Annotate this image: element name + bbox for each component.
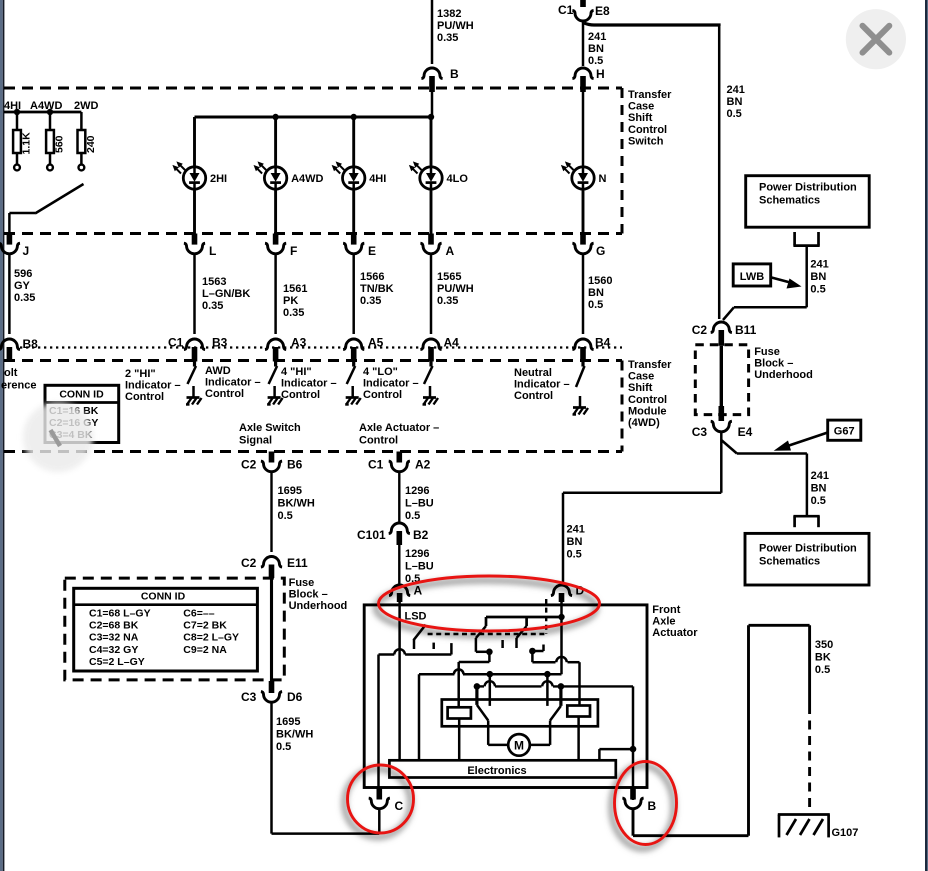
module box right border xyxy=(621,361,624,452)
Fuse Block Underhood dashed box (right) xyxy=(695,345,748,415)
svg-text:L–BU: L–BU xyxy=(405,561,434,573)
svg-text:560: 560 xyxy=(54,135,66,153)
svg-text:olt: olt xyxy=(4,367,18,379)
connector C3 E4 (fuse block boundary) xyxy=(719,406,725,421)
connector B4 (module boundary) xyxy=(572,339,593,350)
off-page connector bracket below box xyxy=(793,232,796,246)
svg-text:TN/BK: TN/BK xyxy=(360,283,394,295)
wire through fuse block xyxy=(720,346,723,406)
svg-text:0.35: 0.35 xyxy=(14,292,35,304)
svg-text:B3: B3 xyxy=(212,336,228,350)
svg-text:Control: Control xyxy=(628,124,667,136)
2 HI indicator control output switch xyxy=(193,362,196,367)
switch 2 contact xyxy=(501,640,504,648)
svg-text:Axle Switch: Axle Switch xyxy=(239,422,301,434)
junction node bus/B wire xyxy=(428,114,434,120)
svg-text:C101: C101 xyxy=(357,528,386,542)
svg-text:F: F xyxy=(290,244,297,258)
wire E11 down through fuse block xyxy=(270,578,273,681)
svg-text:B6: B6 xyxy=(287,458,303,472)
watermark mark xyxy=(51,430,61,446)
Electronics box xyxy=(389,760,615,777)
svg-text:Case: Case xyxy=(628,371,654,383)
connector D (actuator boundary) xyxy=(551,585,572,596)
wire connector A down into Electronics xyxy=(398,602,401,760)
dashed wire segment to G107 xyxy=(808,705,811,813)
svg-text:B: B xyxy=(648,799,657,813)
connector A5 (module boundary) xyxy=(343,339,364,350)
junction node xyxy=(487,671,494,678)
connector G (switch boundary) xyxy=(580,234,586,245)
svg-text:Fuse: Fuse xyxy=(754,346,780,358)
switch 1 contact xyxy=(432,643,435,649)
wire 1382 PU/WH from top to connector B xyxy=(431,0,434,64)
junction node xyxy=(630,746,637,753)
svg-text:Power Distribution: Power Distribution xyxy=(759,543,857,555)
svg-text:596: 596 xyxy=(14,268,32,280)
svg-text:1563: 1563 xyxy=(202,276,226,288)
svg-text:Axle Actuator –: Axle Actuator – xyxy=(359,422,439,434)
connector C2 E11 (fuse block boundary) xyxy=(261,557,282,568)
svg-text:0.5: 0.5 xyxy=(815,664,830,676)
svg-text:4HI: 4HI xyxy=(4,100,21,112)
svg-text:Neutral: Neutral xyxy=(514,367,552,379)
relay coil right xyxy=(567,706,590,717)
resistor 1.1K xyxy=(16,112,19,130)
connector B (actuator boundary) xyxy=(630,788,636,800)
svg-text:C2: C2 xyxy=(692,323,708,337)
svg-text:LWB: LWB xyxy=(740,271,764,283)
Power Distribution Schematics box (top) xyxy=(746,176,870,228)
switch 2 output wire xyxy=(475,649,478,652)
red highlight circle around connector C xyxy=(348,765,414,833)
svg-text:240: 240 xyxy=(85,135,97,153)
svg-text:0.5: 0.5 xyxy=(567,549,582,561)
svg-text:C6=––: C6=–– xyxy=(183,608,214,620)
svg-text:BK: BK xyxy=(815,652,831,664)
svg-text:PK: PK xyxy=(283,295,298,307)
wire bus down to LED 2HI xyxy=(193,117,196,167)
svg-text:Control: Control xyxy=(281,389,320,401)
svg-text:Transfer: Transfer xyxy=(628,359,672,371)
module connector face dotted line xyxy=(20,346,622,348)
connector A4 (module boundary) xyxy=(420,339,441,350)
off-page connector bracket above bottom box xyxy=(793,515,819,518)
wire LED 4HI to connector xyxy=(352,189,355,234)
wire D6 down and right to actuator connector C xyxy=(270,703,273,834)
svg-text:A5: A5 xyxy=(368,336,384,350)
svg-text:B2: B2 xyxy=(413,528,429,542)
switch 3 contact xyxy=(542,645,545,652)
connector C3 D6 (fuse block boundary) xyxy=(269,681,275,693)
coil bottom leads to Electronics xyxy=(458,719,461,761)
4 LO indicator control output switch xyxy=(429,362,432,367)
branch wire E8 to right column (241 BN) xyxy=(584,23,719,26)
relay blade left xyxy=(477,705,488,721)
svg-text:C3=32 NA: C3=32 NA xyxy=(89,632,139,644)
svg-text:1560: 1560 xyxy=(588,275,612,287)
svg-text:Indicator –: Indicator – xyxy=(363,378,419,390)
svg-text:C9=2 NA: C9=2 NA xyxy=(183,644,227,656)
motor wires xyxy=(487,721,490,745)
resistor 240 xyxy=(80,112,83,130)
svg-text:Schematics: Schematics xyxy=(759,556,820,568)
svg-text:Control: Control xyxy=(125,391,164,403)
junction node D / switch common xyxy=(558,614,564,620)
red highlight ellipse around A and D connectors xyxy=(379,576,600,631)
feedback line L1 (hops over coil wire) xyxy=(419,673,454,676)
svg-text:C1: C1 xyxy=(368,458,384,472)
svg-text:2 "HI": 2 "HI" xyxy=(125,368,156,380)
svg-text:L: L xyxy=(209,244,216,258)
connector H xyxy=(572,68,593,79)
Power Distribution Schematics box (bottom) xyxy=(745,533,869,585)
indicator LED 4LO xyxy=(409,161,442,189)
svg-text:C1: C1 xyxy=(168,336,184,350)
relay fixed contact wires xyxy=(489,674,492,706)
svg-text:Control: Control xyxy=(514,390,553,402)
svg-text:H: H xyxy=(596,67,605,81)
svg-text:Block –: Block – xyxy=(754,358,793,370)
svg-text:1695: 1695 xyxy=(278,485,302,497)
svg-text:1.1K: 1.1K xyxy=(21,132,33,155)
Transfer Case Shift Control Switch dashed box : top border xyxy=(4,87,622,90)
Front Axle Actuator box xyxy=(364,605,647,788)
wire bus down to LED A4WD xyxy=(274,117,277,167)
connector F (switch boundary) xyxy=(273,234,279,245)
connector A3 (module boundary) xyxy=(265,339,286,350)
svg-text:M: M xyxy=(514,738,524,752)
svg-text:A4: A4 xyxy=(444,336,460,350)
svg-text:0.5: 0.5 xyxy=(810,284,825,296)
junction node bus/4HI xyxy=(351,114,357,120)
svg-text:4LO: 4LO xyxy=(447,173,469,185)
red highlight circle (connector C) shadow xyxy=(345,769,411,837)
svg-text:0.35: 0.35 xyxy=(283,307,304,319)
connector A (actuator boundary) xyxy=(389,585,410,596)
switch blade 2 xyxy=(476,626,486,638)
svg-text:C8=2 L–GY: C8=2 L–GY xyxy=(183,632,239,644)
indicator LED 2HI xyxy=(172,161,205,189)
svg-text:Control: Control xyxy=(363,389,402,401)
wire LED N to connector G xyxy=(582,189,585,234)
svg-text:D6: D6 xyxy=(287,690,303,704)
svg-text:4 "HI": 4 "HI" xyxy=(281,366,312,378)
svg-text:C2: C2 xyxy=(241,556,257,570)
svg-text:BK/WH: BK/WH xyxy=(276,729,313,741)
wire xyxy=(352,254,355,334)
selector switch blade xyxy=(9,212,35,215)
svg-text:B: B xyxy=(450,67,459,81)
svg-text:erence: erence xyxy=(1,380,36,392)
Fuse Block Underhood dashed box (left) xyxy=(65,578,284,680)
svg-text:BN: BN xyxy=(727,96,743,108)
svg-text:Indicator –: Indicator – xyxy=(514,379,570,391)
svg-text:B8: B8 xyxy=(23,337,39,351)
svg-text:Actuator: Actuator xyxy=(652,627,698,639)
G67 arrow xyxy=(786,433,828,447)
switch box right border xyxy=(621,88,624,234)
svg-text:(4WD): (4WD) xyxy=(628,417,660,429)
svg-text:L–BU: L–BU xyxy=(405,498,434,510)
wire connector D down to common line xyxy=(560,602,563,674)
G67 tag box xyxy=(828,420,861,440)
svg-text:Case: Case xyxy=(628,101,654,113)
wire below C xyxy=(378,810,381,834)
wire below B to LED bus xyxy=(431,92,434,118)
svg-text:Underhood: Underhood xyxy=(289,600,348,612)
svg-text:0.5: 0.5 xyxy=(276,741,291,753)
svg-text:G: G xyxy=(596,244,605,258)
relay blade right xyxy=(550,706,561,721)
wire xyxy=(430,254,433,334)
svg-text:0.5: 0.5 xyxy=(811,495,826,507)
svg-text:BN: BN xyxy=(588,43,604,55)
wire xyxy=(193,254,196,334)
connector B8 (module boundary) xyxy=(0,339,20,350)
svg-text:2HI: 2HI xyxy=(210,173,227,185)
svg-text:Axle: Axle xyxy=(652,616,675,628)
wire B2 down to actuator connector A xyxy=(398,545,400,586)
svg-text:Indicator –: Indicator – xyxy=(125,380,181,392)
svg-text:Underhood: Underhood xyxy=(754,369,813,381)
svg-text:1296: 1296 xyxy=(405,548,429,560)
wire B to ground G107 xyxy=(632,810,635,836)
svg-text:E4: E4 xyxy=(738,425,753,439)
wire E4 down, branch to Power Distribution (bottom) xyxy=(720,432,723,440)
red highlight ellipse (A and D connectors) shadow xyxy=(376,581,596,636)
junction node (A4WD resistor) xyxy=(47,109,53,115)
svg-text:J: J xyxy=(23,244,30,258)
LWB tag box xyxy=(733,264,771,286)
indicator LED N xyxy=(561,161,594,189)
Neutral indicator control switch xyxy=(581,362,584,367)
svg-text:GY: GY xyxy=(14,280,31,292)
svg-text:C1=68 L–GY: C1=68 L–GY xyxy=(89,608,151,620)
right window edge strip xyxy=(925,0,927,871)
junction node bus/A4WD xyxy=(272,114,278,120)
svg-text:A4WD: A4WD xyxy=(291,173,323,185)
svg-text:1296: 1296 xyxy=(405,485,429,497)
wire B6 down to E11 xyxy=(270,472,272,552)
svg-text:C: C xyxy=(395,799,404,813)
relay box xyxy=(442,700,598,727)
resistor 560 xyxy=(49,112,52,130)
connector C1 E8 (in-line) xyxy=(580,0,586,7)
svg-text:Shift: Shift xyxy=(628,382,653,394)
svg-text:A4WD: A4WD xyxy=(30,100,62,112)
svg-text:C3: C3 xyxy=(692,425,708,439)
svg-text:Signal: Signal xyxy=(239,435,272,447)
svg-text:G67: G67 xyxy=(834,426,855,438)
wire A2 down to B2 xyxy=(398,472,400,523)
svg-text:C7=2 BK: C7=2 BK xyxy=(183,620,227,632)
svg-text:0.5: 0.5 xyxy=(405,510,420,522)
svg-text:CONN ID: CONN ID xyxy=(141,591,186,603)
wire blade pivot down to connector J xyxy=(8,213,11,234)
svg-text:0.35: 0.35 xyxy=(437,295,458,307)
svg-text:Module: Module xyxy=(628,405,667,417)
svg-text:A2: A2 xyxy=(415,458,431,472)
branch into Electronics xyxy=(599,748,633,751)
svg-text:0.5: 0.5 xyxy=(727,108,742,120)
connector B xyxy=(421,68,442,79)
svg-text:PU/WH: PU/WH xyxy=(437,283,474,295)
svg-text:1565: 1565 xyxy=(437,271,461,283)
wire E8 down to H xyxy=(582,21,585,66)
wire LED 4LO to connector xyxy=(430,189,433,234)
svg-text:1566: 1566 xyxy=(360,271,384,283)
svg-text:4 "LO": 4 "LO" xyxy=(363,366,398,378)
svg-text:Fuse: Fuse xyxy=(289,577,315,589)
wire xyxy=(8,254,11,334)
svg-text:Control: Control xyxy=(628,394,667,406)
red highlight ellipse (connector B) shadow xyxy=(612,766,674,849)
svg-text:0.5: 0.5 xyxy=(278,510,293,522)
svg-text:2WD: 2WD xyxy=(74,100,99,112)
junction node xyxy=(529,648,536,655)
ground G107 xyxy=(778,815,781,838)
left window edge strip xyxy=(0,0,3,871)
svg-text:1695: 1695 xyxy=(276,716,300,728)
wire from Power Distribution down xyxy=(805,246,808,308)
svg-text:B4: B4 xyxy=(595,336,611,350)
svg-text:A: A xyxy=(446,244,455,258)
connector C2 B6 (module boundary) xyxy=(269,452,275,463)
svg-text:1382: 1382 xyxy=(437,8,461,20)
junction node xyxy=(486,649,493,656)
module box bottom border xyxy=(4,450,622,453)
svg-text:BK/WH: BK/WH xyxy=(278,498,315,510)
mechanical linkage (dashed) xyxy=(428,633,547,635)
svg-text:L–GN/BK: L–GN/BK xyxy=(202,288,250,300)
connector C2 B11 (fuse block boundary) xyxy=(711,322,732,333)
svg-text:Control: Control xyxy=(205,388,244,400)
svg-text:CONN ID: CONN ID xyxy=(59,389,104,401)
svg-text:Transfer: Transfer xyxy=(628,89,672,101)
motor M xyxy=(508,734,530,756)
svg-text:C2=68 BK: C2=68 BK xyxy=(89,620,139,632)
svg-text:1561: 1561 xyxy=(283,283,307,295)
line to connector B (hops over contact wires) xyxy=(474,683,481,690)
LWB arrow xyxy=(772,278,795,284)
svg-text:Indicator –: Indicator – xyxy=(281,378,337,390)
connector C (actuator boundary) xyxy=(377,788,383,800)
connector L (switch boundary) xyxy=(192,234,198,245)
svg-text:G107: G107 xyxy=(832,827,859,839)
svg-text:Electronics: Electronics xyxy=(467,765,526,777)
svg-text:241: 241 xyxy=(567,524,585,536)
resistor bus wire xyxy=(4,111,81,114)
svg-text:C3: C3 xyxy=(241,690,257,704)
svg-text:241: 241 xyxy=(810,259,828,271)
relay armature stubs xyxy=(475,686,478,705)
connector C1 A2 (module boundary) xyxy=(397,452,403,463)
svg-text:0.5: 0.5 xyxy=(588,299,603,311)
svg-text:BN: BN xyxy=(810,271,826,283)
svg-text:Schematics: Schematics xyxy=(759,195,820,207)
CONN ID table (switch connectors) xyxy=(45,385,119,442)
switch 3 output wire xyxy=(532,650,543,653)
junction node (4HI resistor) xyxy=(14,109,20,115)
wire to right relay coil (hops over D wire) xyxy=(531,651,534,662)
wire LED A4WD to connector xyxy=(274,189,277,234)
connector J (switch boundary) xyxy=(7,234,13,245)
svg-text:4HI: 4HI xyxy=(369,173,386,185)
switch box bottom border xyxy=(4,232,622,235)
svg-text:PU/WH: PU/WH xyxy=(437,20,474,32)
AWD indicator control output switch xyxy=(274,362,277,367)
red highlight ellipse around connector B xyxy=(615,762,677,845)
LSD switch 1 output wire to connector C (hops over A wire) xyxy=(450,643,453,654)
svg-text:E11: E11 xyxy=(287,556,308,570)
wire xyxy=(274,254,277,334)
svg-text:Switch: Switch xyxy=(628,135,664,147)
wire bus down to LED 4HI xyxy=(352,117,355,167)
LSD switch common wire (from D) xyxy=(486,616,562,619)
connector C1 B3 (module boundary) xyxy=(184,339,205,350)
svg-text:Control: Control xyxy=(359,435,398,447)
svg-text:C5=2 L–GY: C5=2 L–GY xyxy=(89,656,145,668)
svg-text:BN: BN xyxy=(567,536,583,548)
svg-text:350: 350 xyxy=(815,639,833,651)
svg-text:BN: BN xyxy=(811,483,827,495)
svg-text:241: 241 xyxy=(588,31,606,43)
svg-text:Shift: Shift xyxy=(628,112,653,124)
svg-text:Power Distribution: Power Distribution xyxy=(759,182,857,194)
watermark circle xyxy=(23,402,93,472)
wire LED 2HI to connector xyxy=(193,189,196,234)
svg-text:0.35: 0.35 xyxy=(202,300,223,312)
wire below H to LED N xyxy=(582,92,585,167)
svg-text:241: 241 xyxy=(727,84,745,96)
close button xyxy=(846,9,906,69)
wire to left relay coil xyxy=(488,652,491,662)
svg-text:BN: BN xyxy=(588,287,604,299)
L1 left end into Electronics xyxy=(418,674,421,760)
svg-text:0.35: 0.35 xyxy=(360,295,381,307)
svg-text:241: 241 xyxy=(811,470,829,482)
svg-text:Indicator –: Indicator – xyxy=(205,377,261,389)
switch blade 3 xyxy=(517,626,527,638)
wire E4 branch down to actuator connector D xyxy=(720,440,723,493)
wire joining into C2 B11 xyxy=(734,306,807,309)
CONN ID table (fuse block connectors) xyxy=(74,588,258,671)
wire bus down to LED 4LO xyxy=(430,117,433,167)
svg-text:E: E xyxy=(368,244,376,258)
svg-text:AWD: AWD xyxy=(205,365,231,377)
connector E (switch boundary) xyxy=(351,234,357,245)
LSD position switch blade 1 xyxy=(413,625,425,641)
svg-text:N: N xyxy=(599,173,607,185)
indicator LED 4HI xyxy=(332,161,365,189)
svg-text:Front: Front xyxy=(652,604,680,616)
svg-text:E8: E8 xyxy=(595,4,610,18)
4 HI indicator control output switch xyxy=(352,362,355,367)
svg-text:B11: B11 xyxy=(735,323,757,337)
LED bus wire xyxy=(195,116,432,119)
svg-text:0.5: 0.5 xyxy=(588,55,603,67)
relay coil left xyxy=(448,707,471,718)
svg-text:A3: A3 xyxy=(291,336,307,350)
svg-text:C4=32 GY: C4=32 GY xyxy=(89,644,138,656)
junction node xyxy=(544,671,551,678)
connector A (switch boundary) xyxy=(428,234,434,245)
svg-text:0.35: 0.35 xyxy=(437,32,458,44)
wire xyxy=(582,254,585,334)
connector C101 B2 (in-line) xyxy=(389,523,410,534)
svg-text:C1: C1 xyxy=(558,3,574,17)
